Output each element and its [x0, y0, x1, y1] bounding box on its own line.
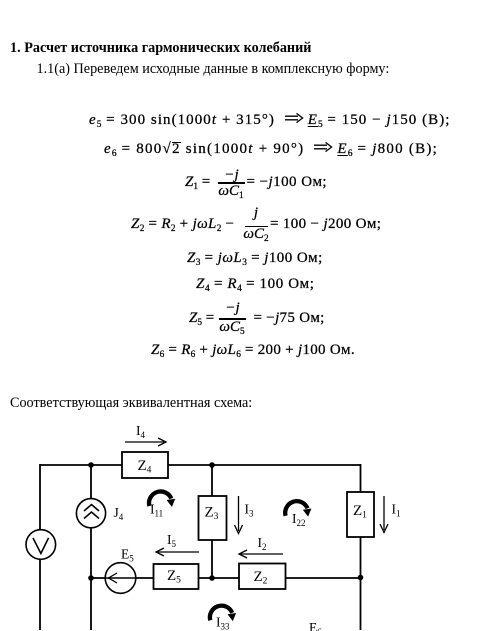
- svg-text:E6: E6: [309, 620, 322, 631]
- svg-text:I4: I4: [136, 423, 146, 440]
- equation e5: [89, 113, 451, 130]
- resistor Z4: [122, 452, 168, 478]
- svg-text:I3: I3: [245, 502, 255, 519]
- wire middle horizontal: [91, 577, 361, 579]
- wire J4 branch vertical: [90, 465, 92, 630]
- equation Z2: [131, 217, 234, 234]
- paragraph schema: [10, 396, 252, 410]
- svg-text:I11: I11: [150, 502, 163, 519]
- svg-text:I5: I5: [167, 532, 177, 549]
- voltage source E5: [105, 547, 136, 594]
- svg-text:I1: I1: [392, 502, 401, 519]
- equation Z1 : Z1 = -j/(wC1) = -j100 Om: [185, 175, 210, 192]
- loop arrow I11: [149, 491, 175, 518]
- heading: [10, 41, 311, 55]
- svg-text:J4: J4: [114, 505, 124, 522]
- svg-text:I2: I2: [258, 535, 267, 552]
- equation Z6: [151, 343, 355, 360]
- equation Z4: [196, 277, 315, 294]
- resistor Z3: [199, 496, 227, 540]
- current arrow I3: [235, 496, 255, 534]
- current arrow I2: [239, 535, 283, 558]
- svg-text:I33: I33: [216, 615, 230, 631]
- resistor Z2: [239, 564, 286, 590]
- wire Z3 branch vertical: [211, 465, 213, 578]
- node dot top-mid: [209, 462, 215, 468]
- resistor Z5: [154, 564, 199, 589]
- equation Z5: [189, 311, 214, 328]
- node dot mid-right: [358, 575, 364, 581]
- voltage source V: [26, 530, 56, 560]
- resistor Z1: [347, 492, 374, 537]
- equation e6: [104, 142, 438, 159]
- svg-text:E5: E5: [121, 547, 134, 564]
- loop arrow I22: [285, 501, 311, 528]
- node dot top-left: [88, 462, 94, 468]
- node dot mid-left: [88, 575, 94, 581]
- current arrow I1: [380, 496, 401, 533]
- current arrow I5: [156, 532, 199, 556]
- node dot mid-center: [209, 575, 215, 581]
- wire top horizontal: [40, 464, 361, 466]
- current source J4: [76, 499, 123, 528]
- wire right vertical: [360, 464, 362, 630]
- wire left vertical: [39, 464, 41, 630]
- svg-text:I22: I22: [292, 511, 306, 528]
- paragraph 1.1(a): [37, 62, 390, 76]
- equation Z3: [187, 251, 323, 268]
- current arrow I4: [125, 423, 166, 446]
- loop arrow I33: [210, 606, 236, 631]
